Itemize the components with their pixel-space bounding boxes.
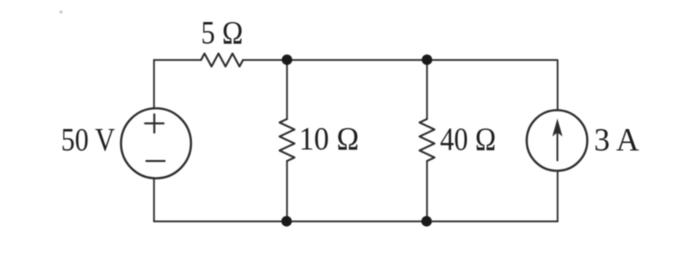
svg-text:5 Ω: 5 Ω [201, 15, 243, 51]
junction dot node B bottom [421, 216, 432, 227]
wire top-left: left node to resistor R1 [154, 59, 201, 61]
wire branch B upper: node B down to resistor R3 [426, 60, 428, 119]
voltage source V1 circle [121, 108, 191, 178]
wire left-bottom: voltage source to bottom wire [153, 178, 155, 221]
wire top-right: node B to right corner and down to current source [427, 60, 558, 110]
wire branch B lower: R3 to bottom rail [426, 161, 428, 221]
svg-text:3 A: 3 A [594, 122, 639, 158]
arrow inside I1 (pointing up) [556, 130, 558, 161]
wire branch A lower: R2 to bottom rail [286, 161, 288, 221]
svg-text:10 Ω: 10 Ω [299, 122, 359, 158]
junction dot node A top [282, 55, 293, 66]
junction dot node A bottom [281, 216, 292, 227]
faint scan speck top-left [59, 10, 62, 13]
wire top: node A to node B [287, 59, 427, 61]
wire right-bottom: current source to bottom rail [557, 171, 559, 222]
wire top-middle: R1 to node A [243, 59, 287, 61]
resistor R2 10-ohm vertical zigzag [280, 119, 295, 161]
svg-text:40 Ω: 40 Ω [440, 122, 496, 158]
current source I1 circle [527, 110, 588, 171]
minus sign inside V1 [146, 160, 164, 162]
wire left vertical: top wire down to voltage source [153, 60, 155, 108]
wire bottom: full bottom rail [154, 220, 558, 222]
resistor R3 40-ohm vertical zigzag [420, 119, 435, 161]
arrowhead of I1 [552, 119, 562, 137]
resistor R1 5-ohm zigzag [201, 54, 243, 67]
wire branch A upper: node A down to resistor R2 [286, 60, 288, 119]
junction dot node B top [422, 55, 433, 66]
svg-text:50 V: 50 V [61, 122, 115, 158]
plus sign inside V1 [145, 114, 164, 132]
